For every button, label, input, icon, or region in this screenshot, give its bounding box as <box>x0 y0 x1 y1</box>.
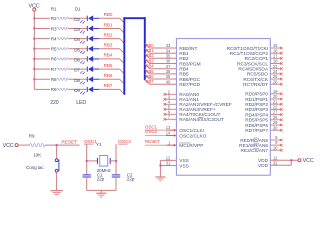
terminal OSC1 to MCU <box>145 124 177 131</box>
wire bus to pin 36, net RB3 <box>150 63 177 65</box>
svg-text:10K: 10K <box>33 152 42 157</box>
wire C1 down <box>86 177 88 190</box>
wire rail to resistor R6 <box>34 58 50 60</box>
svg-text:RB5: RB5 <box>179 72 189 78</box>
node rail junction row 5 <box>33 58 35 60</box>
svg-text:RB4: RB4 <box>104 53 113 58</box>
LED D4 <box>74 36 99 44</box>
svg-text:7: 7 <box>168 114 171 119</box>
ground (switch) <box>50 191 63 195</box>
svg-text:RC7/RX/DT: RC7/RX/DT <box>243 82 268 88</box>
svg-text:RESET: RESET <box>145 139 160 144</box>
svg-text:VDD: VDD <box>258 163 269 169</box>
svg-text:D7: D7 <box>74 68 80 73</box>
ground (crystal) <box>96 193 106 197</box>
svg-text:10: 10 <box>273 145 278 150</box>
node crystal right tap <box>115 160 117 162</box>
wire bottom rail <box>87 189 116 191</box>
svg-text:VSS: VSS <box>179 158 188 164</box>
svg-text:RC4/SDI/SDA: RC4/SDI/SDA <box>238 67 268 73</box>
node bus exit RB7 <box>145 80 150 85</box>
pin stub RA5 (pin 7, no connect) <box>164 114 177 120</box>
svg-text:VCC: VCC <box>3 143 14 149</box>
svg-text:OSC1/CLKI: OSC1/CLKI <box>179 128 204 134</box>
svg-text:RESET: RESET <box>61 139 77 145</box>
svg-text:RD1/PSP1: RD1/PSP1 <box>245 97 268 103</box>
pin stub RC0 (pin 15, no connect) <box>270 43 282 49</box>
svg-text:14: 14 <box>166 131 171 136</box>
svg-text:D5: D5 <box>74 47 80 52</box>
pin names left column <box>179 46 231 170</box>
svg-text:D9: D9 <box>74 88 80 93</box>
terminal RESET to MCU <box>145 139 177 147</box>
overlines RD WR CS on RE pins <box>253 137 258 139</box>
pin stub RC3 (pin 18, no connect) <box>270 59 282 65</box>
wire OSC1 column <box>86 144 88 174</box>
node bus entry RB7 <box>120 89 125 94</box>
pin stub RC1 (pin 16, no connect) <box>270 48 282 54</box>
wire to crystal left <box>87 160 97 162</box>
svg-text:RC2/CCP1: RC2/CCP1 <box>245 56 269 62</box>
svg-text:RC1/T1OSI/CCP2: RC1/T1OSI/CCP2 <box>230 51 269 57</box>
wire resistor R2 to LED D2 <box>68 17 87 19</box>
node rail junction row 1 <box>33 17 35 19</box>
svg-text:LED: LED <box>76 100 86 106</box>
pin stub RD6 (pin 29, no connect) <box>270 120 282 126</box>
wire rail to resistor R3 <box>34 27 50 29</box>
svg-text:D3: D3 <box>74 27 80 32</box>
pin stub RA1 (pin 3, no connect) <box>164 94 177 100</box>
overline SS on RA5 <box>199 116 204 118</box>
svg-text:R8: R8 <box>51 77 57 82</box>
node bus entry RB4 <box>120 59 125 64</box>
svg-text:RB4: RB4 <box>179 67 189 73</box>
wire VDD pin 32 <box>270 164 291 166</box>
svg-text:RC6/TX/CK: RC6/TX/CK <box>243 77 268 83</box>
svg-text:RB7: RB7 <box>146 79 155 84</box>
wire VCC rail vertical <box>33 11 35 89</box>
wire bus to pin 33, net RB0 <box>150 47 177 49</box>
pin stub RE0 (pin 8, no connect) <box>270 135 282 141</box>
pin stub RA2 (pin 4, no connect) <box>164 99 177 105</box>
LED D9 <box>74 87 99 95</box>
pin stub RC7 (pin 26, no connect) <box>270 79 282 85</box>
node VDD junction <box>290 159 292 161</box>
capacitor C2 22p <box>112 172 135 181</box>
microcontroller U1 PIC16F877A body <box>176 39 270 176</box>
svg-text:22p: 22p <box>97 177 105 182</box>
wire rail to resistor R7 <box>34 68 50 70</box>
svg-text:22p: 22p <box>127 177 135 182</box>
svg-text:R4: R4 <box>51 36 57 41</box>
node rail junction row 4 <box>33 48 35 50</box>
pin stub RD5 (pin 28, no connect) <box>270 115 282 121</box>
wire rail to resistor R9 <box>34 88 50 90</box>
wire LED D2 to bus, net RB0 <box>99 17 119 19</box>
wire VDD pin 11 <box>270 159 298 161</box>
pin stub RC4 (pin 23, no connect) <box>270 64 282 70</box>
wire LED D5 to bus, net RB3 <box>99 48 119 50</box>
svg-text:RC0/T1OSO/T1CKI: RC0/T1OSO/T1CKI <box>227 46 268 52</box>
svg-text:RD4/PSP4: RD4/PSP4 <box>245 112 268 118</box>
svg-text:OSC2/CLKO: OSC2/CLKO <box>179 133 206 139</box>
svg-text:RD3/PSP3: RD3/PSP3 <box>245 107 268 113</box>
wire bus to pin 39, net RB6 <box>150 78 177 80</box>
wire VSS down <box>159 160 161 177</box>
svg-text:RC3/SCK/SCL: RC3/SCK/SCL <box>237 61 268 67</box>
pin names right column <box>227 46 269 169</box>
svg-text:Y1: Y1 <box>96 142 102 147</box>
wire VSS pin 31 <box>160 165 176 167</box>
node rail junction row 7 <box>33 78 35 80</box>
node rail junction row 6 <box>33 68 35 70</box>
svg-text:RB3/PGM: RB3/PGM <box>179 61 200 67</box>
wire rail to resistor R8 <box>34 78 50 80</box>
pin stub RD2 (pin 21, no connect) <box>270 99 282 105</box>
svg-text:RD7/PSP7: RD7/PSP7 <box>245 128 268 134</box>
bus horizontal top segment <box>123 17 145 19</box>
svg-text:RD0/PSP0: RD0/PSP0 <box>245 92 268 98</box>
svg-text:D2: D2 <box>74 17 80 22</box>
wire bus to pin 37, net RB4 <box>150 68 177 70</box>
wire crystal to OSC2 column <box>110 160 116 162</box>
wire LED D9 to bus, net RB7 <box>99 88 119 90</box>
pin stub RE2 (pin 10, no connect) <box>270 145 282 151</box>
svg-text:VDD: VDD <box>258 158 269 164</box>
wire rail to resistor R4 <box>34 38 50 40</box>
LED D6 <box>74 56 99 64</box>
svg-text:MCLR/VPP: MCLR/VPP <box>179 143 203 149</box>
pin stub RD7 (pin 30, no connect) <box>270 125 282 131</box>
pin stub RD3 (pin 22, no connect) <box>270 105 282 111</box>
wire bus to pin 35, net RB2 <box>150 57 177 59</box>
svg-text:OSC2: OSC2 <box>145 129 158 134</box>
svg-text:D6: D6 <box>74 58 80 63</box>
node bus exit RB0 <box>145 43 150 48</box>
svg-text:RB7/PGD: RB7/PGD <box>179 82 200 88</box>
svg-text:32: 32 <box>273 160 278 165</box>
wire VCC to R9 <box>18 144 30 146</box>
svg-text:R3: R3 <box>51 26 57 31</box>
svg-text:RB0/INT: RB0/INT <box>179 46 197 52</box>
svg-text:RB0: RB0 <box>104 12 113 17</box>
wire resistor R8 to LED D8 <box>68 78 87 80</box>
wire resistor R5 to LED D5 <box>68 48 87 50</box>
node bus exit RB3 <box>145 59 150 64</box>
node bus entry RB2 <box>120 39 125 44</box>
svg-text:RB6/PGC: RB6/PGC <box>179 77 200 83</box>
svg-text:13: 13 <box>166 125 171 130</box>
svg-text:RD2/PSP2: RD2/PSP2 <box>245 102 268 108</box>
pin stub RA0 (pin 2, no connect) <box>164 89 177 95</box>
node bus entry RB6 <box>120 79 125 84</box>
node reset junction <box>56 144 58 146</box>
node bus entry RB1 <box>120 28 125 33</box>
svg-text:D4: D4 <box>74 37 80 42</box>
svg-text:VSS: VSS <box>179 163 188 169</box>
LED D5 <box>74 46 99 54</box>
svg-text:D1: D1 <box>75 7 81 12</box>
wire LED D4 to bus, net RB2 <box>99 38 119 40</box>
wire switch to ground <box>56 172 58 191</box>
node bus entry RB0 <box>120 18 125 23</box>
svg-text:VCC: VCC <box>303 158 314 164</box>
svg-text:RB1: RB1 <box>179 51 189 57</box>
svg-text:26: 26 <box>273 79 278 84</box>
wire LED D7 to bus, net RB5 <box>99 68 119 70</box>
svg-text:RB7: RB7 <box>104 83 113 88</box>
wire LED D6 to bus, net RB4 <box>99 58 119 60</box>
pin stub RC6 (pin 25, no connect) <box>270 74 282 80</box>
wire resistor R9 to LED D9 <box>68 88 87 90</box>
pin stub RD4 (pin 27, no connect) <box>270 110 282 116</box>
pin stub RE1 (pin 9, no connect) <box>270 140 282 146</box>
svg-text:R1: R1 <box>51 7 57 12</box>
svg-text:R2: R2 <box>51 16 57 21</box>
svg-text:R9: R9 <box>29 134 35 139</box>
node VSS junction <box>159 165 161 167</box>
wire bus to pin 34, net RB1 <box>150 52 177 54</box>
LED D8 <box>74 76 99 84</box>
node rail junction row 3 <box>33 38 35 40</box>
pin stub RC5 (pin 24, no connect) <box>270 69 282 75</box>
node rail junction row 2 <box>33 28 35 30</box>
svg-text:220: 220 <box>50 100 59 106</box>
wire C2 down <box>115 177 117 190</box>
pin stub RC2 (pin 17, no connect) <box>270 53 282 59</box>
wire R9 to RESET node <box>45 144 79 146</box>
svg-text:R7: R7 <box>51 67 57 72</box>
node bus exit RB2 <box>145 54 150 59</box>
LED D7 <box>74 66 99 74</box>
wire resistor R4 to LED D4 <box>68 38 87 40</box>
svg-text:RA5/AN4/SS/C2OUT: RA5/AN4/SS/C2OUT <box>179 117 224 123</box>
svg-text:RB1: RB1 <box>104 22 113 27</box>
wire rail to resistor R5 <box>34 48 50 50</box>
terminal OSC2 (crystal) <box>118 139 131 145</box>
node bus exit RB5 <box>145 69 150 74</box>
svg-text:RB5: RB5 <box>104 63 113 68</box>
node bus entry RB3 <box>120 49 125 54</box>
svg-text:Cong tac: Cong tac <box>26 165 44 170</box>
power terminal VCC (right) <box>298 158 314 164</box>
wire bus to pin 40, net RB7 <box>150 83 177 85</box>
svg-text:30: 30 <box>273 125 278 130</box>
wire bus to pin 38, net RB5 <box>150 73 177 75</box>
terminal OSC1 (crystal) <box>84 139 97 145</box>
LED D3 <box>74 26 99 34</box>
wire node to switch <box>56 145 58 159</box>
svg-text:R5: R5 <box>51 47 57 52</box>
pin stub RD1 (pin 20, no connect) <box>270 94 282 100</box>
wire resistor R6 to LED D6 <box>68 58 87 60</box>
pin stub RA3 (pin 5, no connect) <box>164 104 177 110</box>
capacitor C1 22p <box>83 172 105 181</box>
node bus exit RB4 <box>145 64 150 69</box>
crystal Y1 20MHz <box>96 142 112 173</box>
svg-text:R9: R9 <box>51 87 57 92</box>
wire rail to resistor R2 <box>34 17 50 19</box>
svg-text:R6: R6 <box>51 57 57 62</box>
switch (Cong tac) <box>26 159 59 172</box>
bus vertical right segment <box>144 17 146 80</box>
LED D2 <box>74 15 99 23</box>
node bus entry RB5 <box>120 69 125 74</box>
node bus exit RB1 <box>145 49 150 54</box>
svg-text:D8: D8 <box>74 78 80 83</box>
svg-text:RC5/SDO: RC5/SDO <box>247 72 268 78</box>
svg-text:RD6/PSP6: RD6/PSP6 <box>245 123 268 129</box>
power terminal VCC (LED rail) <box>28 3 39 11</box>
terminal OSC2 to MCU <box>145 129 177 137</box>
ground (VSS) <box>155 177 165 181</box>
svg-text:RB3: RB3 <box>104 43 113 48</box>
wire rail to ground <box>100 190 102 193</box>
resistor R9 10K <box>29 134 45 158</box>
wire OSC2 column <box>115 144 117 174</box>
svg-text:RB2: RB2 <box>179 56 189 62</box>
svg-text:RE2/CS/AN7: RE2/CS/AN7 <box>241 148 269 154</box>
power terminal VCC (reset) <box>3 143 19 149</box>
overline MCLR <box>179 142 190 144</box>
svg-text:RB2: RB2 <box>104 32 113 37</box>
svg-text:RB6: RB6 <box>104 73 113 78</box>
svg-text:RD5/PSP5: RD5/PSP5 <box>245 118 268 124</box>
wire VSS pin 12 <box>160 159 176 161</box>
bus vertical left segment <box>123 17 125 95</box>
wire resistor R3 to LED D3 <box>68 27 87 29</box>
node crystal left tap <box>86 160 88 162</box>
node bus exit RB6 <box>145 74 150 79</box>
wire LED D3 to bus, net RB1 <box>99 27 119 29</box>
pin stub RD0 (pin 19, no connect) <box>270 89 282 95</box>
svg-text:31: 31 <box>166 161 171 166</box>
pin stub RA4 (pin 6, no connect) <box>164 109 177 115</box>
svg-text:40: 40 <box>166 79 171 84</box>
svg-text:1: 1 <box>168 140 171 145</box>
wire LED D8 to bus, net RB6 <box>99 78 119 80</box>
wire resistor R7 to LED D7 <box>68 68 87 70</box>
